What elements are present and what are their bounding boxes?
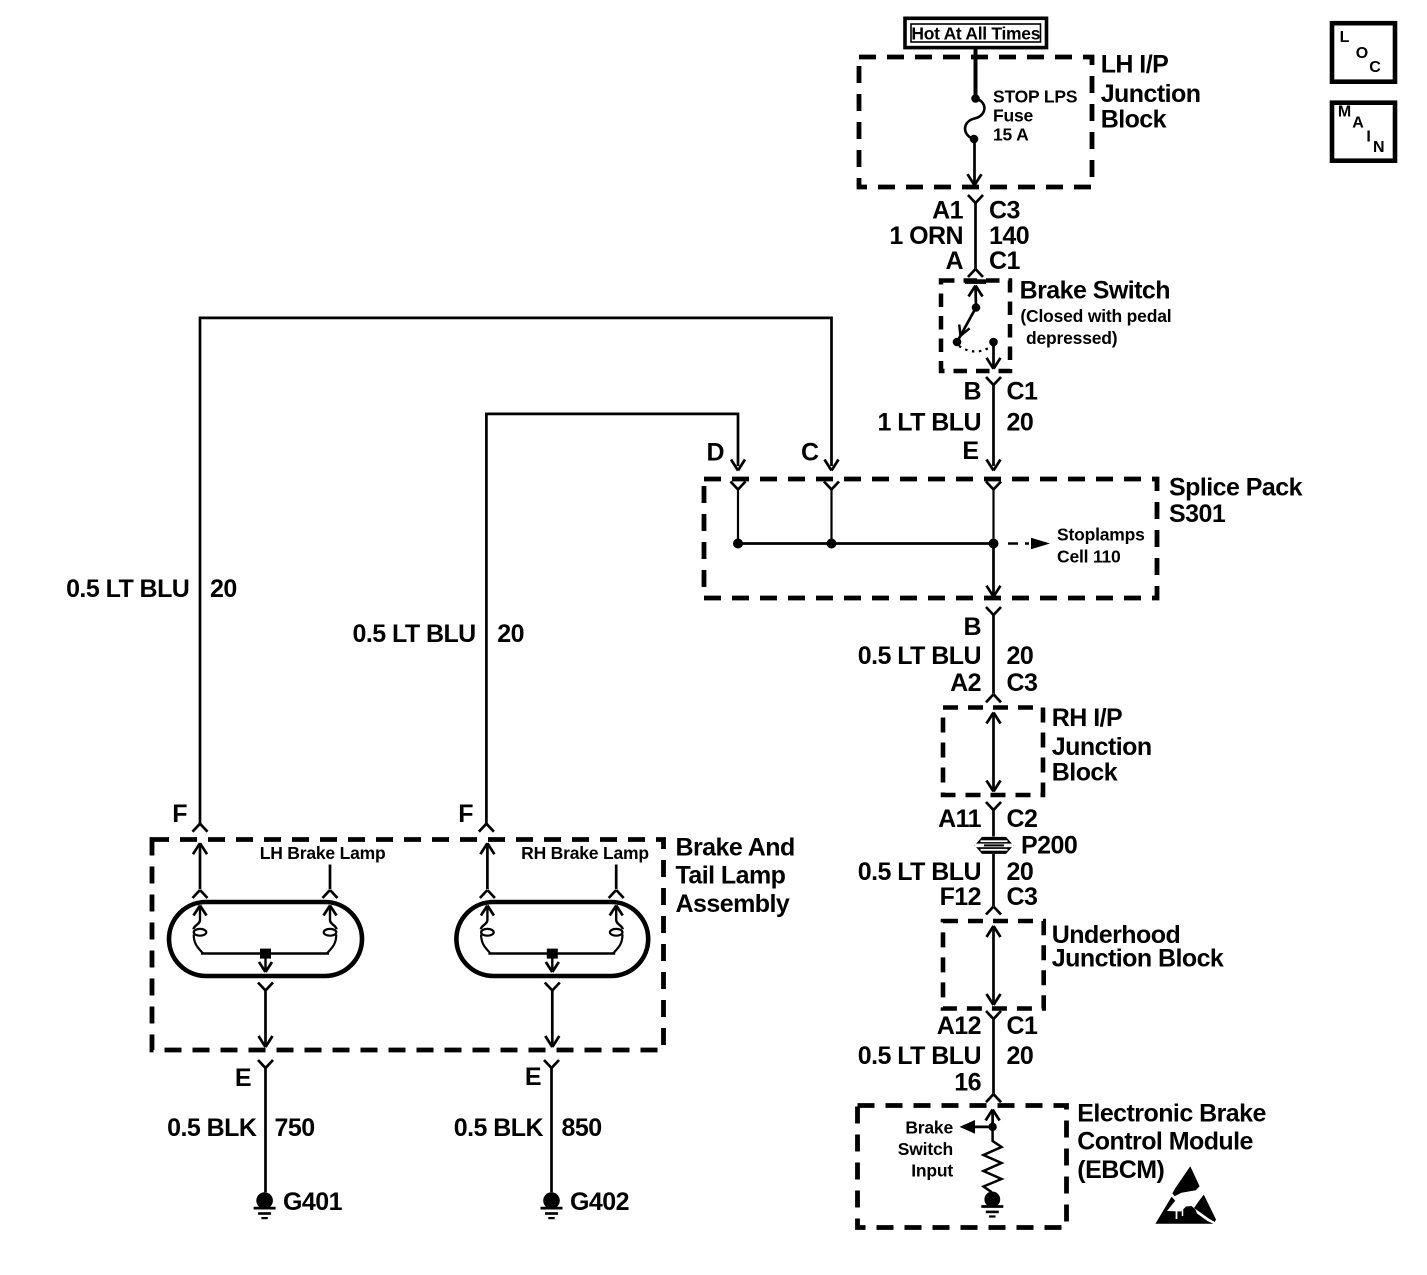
wire feed from Hot At All Times into junction block xyxy=(974,48,978,97)
svg-text:P200: P200 xyxy=(1021,831,1077,859)
svg-text:0.5 LT BLU: 0.5 LT BLU xyxy=(858,642,981,670)
brake switch output wire xyxy=(987,342,1001,369)
splice pack S301 (dashed box) xyxy=(704,479,1157,598)
svg-text:C: C xyxy=(1369,59,1381,76)
svg-text:M: M xyxy=(1338,104,1351,121)
pin label E (RH) xyxy=(525,1063,541,1091)
wire 0.5 LT BLU 20 to RH brake lamp (net F-D) xyxy=(486,414,745,824)
svg-text:0.5 LT BLU: 0.5 LT BLU xyxy=(858,1042,981,1070)
svg-text:Block: Block xyxy=(1101,106,1167,134)
component Brake And Tail Lamp Assembly (dashed box) xyxy=(152,840,664,1051)
svg-text:E: E xyxy=(235,1064,251,1092)
svg-text:I: I xyxy=(1366,128,1370,145)
svg-text:C3: C3 xyxy=(1007,883,1038,911)
svg-text:20: 20 xyxy=(1007,858,1034,886)
connector C3 pin A1 (junction block output) xyxy=(968,195,983,269)
svg-text:C1: C1 xyxy=(989,247,1021,275)
wire through underhood junction block xyxy=(987,926,1001,1005)
connector pin F into lamp assembly (RH) xyxy=(479,824,494,832)
svg-text:A2: A2 xyxy=(950,669,981,697)
svg-text:20: 20 xyxy=(497,620,524,648)
pin label A11 / C2 xyxy=(938,805,1037,833)
svg-text:N: N xyxy=(1373,139,1385,156)
label Brake Switch Input xyxy=(898,1117,954,1180)
pin label F (LH) xyxy=(172,800,187,828)
svg-text:0.5 BLK: 0.5 BLK xyxy=(167,1114,257,1142)
svg-text:O: O xyxy=(1356,45,1368,62)
svg-text:Junction Block: Junction Block xyxy=(1052,944,1224,972)
svg-text:20: 20 xyxy=(1007,1042,1034,1070)
wire P200 to underhood junction block xyxy=(992,854,995,906)
svg-text:Electronic Brake: Electronic Brake xyxy=(1077,1100,1266,1128)
pin label F12 / C3 xyxy=(940,883,1038,911)
svg-text:F12: F12 xyxy=(940,883,981,911)
pin label A1 / C3 xyxy=(932,197,1020,225)
reference arrow to Stoplamps Cell 110 xyxy=(1008,538,1050,550)
splice bus wire xyxy=(738,542,994,545)
svg-text:Tail Lamp: Tail Lamp xyxy=(676,862,786,890)
connector pin F into lamp assembly (LH) xyxy=(193,824,208,832)
label Underhood Junction Block xyxy=(1052,921,1224,972)
pin label B xyxy=(963,613,981,641)
wire 0.5 BLK 750 xyxy=(167,1114,314,1142)
fuse STOP LPS 15 A xyxy=(965,94,984,143)
wire fuse output to box edge xyxy=(968,139,982,185)
svg-text:140: 140 xyxy=(989,222,1029,250)
brake switch travel arc (dotted) xyxy=(959,346,992,352)
brake switch output contact xyxy=(989,338,998,347)
svg-text:C: C xyxy=(801,438,819,466)
label Brake And Tail Lamp Assembly xyxy=(676,834,795,918)
label Stoplamps Cell 110 xyxy=(1057,525,1145,567)
wire label 0.5 LT BLU 20 (P200 segment) xyxy=(858,858,1033,886)
label P200 xyxy=(1021,831,1077,859)
splice entry E xyxy=(986,482,1001,544)
module Electronic Brake Control Module EBCM (dashed box) xyxy=(858,1106,1067,1228)
splice junction C xyxy=(827,539,837,549)
svg-text:STOP LPS: STOP LPS xyxy=(993,87,1077,107)
lamp LH Brake Lamp (dual filament bulb) xyxy=(169,843,362,1047)
label Electronic Brake Control Module (EBCM) xyxy=(1077,1100,1266,1184)
svg-text:0.5 LT BLU: 0.5 LT BLU xyxy=(858,858,981,886)
svg-text:Brake And: Brake And xyxy=(676,834,795,862)
svg-text:F: F xyxy=(458,800,473,828)
brake switch input arrow xyxy=(969,286,983,308)
svg-text:RH I/P: RH I/P xyxy=(1052,704,1122,732)
svg-text:Junction: Junction xyxy=(1052,733,1152,761)
wire through RH I/P junction block xyxy=(987,713,1001,792)
pin label A2 / C3 xyxy=(950,669,1037,697)
svg-text:F: F xyxy=(172,800,187,828)
wire 0.5 LT BLU 20 to LH brake lamp (net F-C) xyxy=(200,318,839,824)
svg-text:L: L xyxy=(1340,29,1350,46)
label Splice Pack S301 xyxy=(1169,474,1303,529)
svg-text:Brake Switch: Brake Switch xyxy=(1020,277,1170,305)
svg-text:B: B xyxy=(963,378,981,406)
label G402 xyxy=(570,1188,629,1216)
svg-text:15 A: 15 A xyxy=(993,125,1029,145)
svg-text:Block: Block xyxy=(1052,759,1118,787)
label Brake Switch xyxy=(1020,277,1172,348)
svg-text:0.5 LT BLU: 0.5 LT BLU xyxy=(352,620,475,648)
svg-text:Input: Input xyxy=(911,1161,953,1181)
splice output wire B xyxy=(987,544,1001,597)
svg-text:RH Brake Lamp: RH Brake Lamp xyxy=(521,843,649,863)
svg-text:Fuse: Fuse xyxy=(993,106,1034,126)
svg-text:20: 20 xyxy=(1007,408,1034,436)
brake switch blade xyxy=(957,308,976,343)
label RH Brake Lamp xyxy=(521,843,649,863)
svg-text:Stoplamps: Stoplamps xyxy=(1057,525,1145,545)
wire 0.5 LT BLU 20 (splice to RH I/P) xyxy=(858,642,1033,670)
legend box MAIN xyxy=(1332,103,1395,161)
svg-text:A11: A11 xyxy=(938,805,981,833)
svg-text:A1: A1 xyxy=(932,197,964,225)
wire 1 LT BLU 20 xyxy=(878,408,1034,436)
connector C1 pin A into brake switch xyxy=(968,269,983,277)
label RH I/P Junction Block xyxy=(1052,704,1152,787)
power label box "Hot At All Times" xyxy=(905,18,1047,47)
component LH I/P Junction Block (dashed box) xyxy=(859,57,1092,187)
brake switch fixed contact bar xyxy=(965,279,986,284)
node label C xyxy=(801,438,819,466)
splice junction E xyxy=(989,539,999,549)
pin label F (RH) xyxy=(458,800,473,828)
svg-text:1 LT BLU: 1 LT BLU xyxy=(878,408,981,436)
svg-text:850: 850 xyxy=(562,1114,602,1142)
svg-text:Splice Pack: Splice Pack xyxy=(1169,474,1303,502)
svg-text:Brake: Brake xyxy=(905,1117,953,1137)
svg-text:Control Module: Control Module xyxy=(1077,1128,1253,1156)
pin label A12 / C1 xyxy=(937,1012,1038,1040)
label G401 xyxy=(283,1188,343,1216)
svg-text:A: A xyxy=(945,247,963,275)
ground G402 xyxy=(541,1192,563,1218)
node brake switch input junction xyxy=(988,1123,996,1131)
pin label A / C1 xyxy=(945,247,1020,275)
wire label 0.5 LT BLU 20 (middle) xyxy=(352,620,524,648)
label LH I/P Junction Block xyxy=(1101,50,1201,133)
svg-text:S301: S301 xyxy=(1169,500,1226,528)
svg-text:20: 20 xyxy=(210,575,237,603)
svg-text:16: 16 xyxy=(954,1069,981,1097)
EBCM input wire pin 16 xyxy=(986,1110,1000,1127)
connector pin 16 into EBCM xyxy=(986,1094,1001,1102)
svg-text:G401: G401 xyxy=(283,1188,343,1216)
svg-text:E: E xyxy=(525,1063,541,1091)
legend box LOC xyxy=(1332,23,1395,81)
svg-text:Junction: Junction xyxy=(1101,80,1201,108)
brake switch stationary contact (lower left) xyxy=(953,338,962,347)
pin label E (LH) xyxy=(235,1064,251,1092)
splice junction D xyxy=(733,539,743,549)
connector pin B (splice output) xyxy=(986,607,1001,694)
svg-text:Hot At All Times: Hot At All Times xyxy=(911,23,1040,43)
svg-text:D: D xyxy=(706,438,724,466)
pass-through grommet P200 xyxy=(975,837,1014,854)
svg-text:depressed): depressed) xyxy=(1026,328,1117,348)
connector pin E (LH lamp return) xyxy=(258,1060,273,1192)
svg-text:C3: C3 xyxy=(989,197,1020,225)
pin label B / C1 xyxy=(963,378,1038,406)
brake switch pivot contact xyxy=(972,303,981,312)
pin label E xyxy=(962,437,978,465)
svg-text:750: 750 xyxy=(275,1114,315,1142)
component Underhood Junction Block (dashed box) xyxy=(943,921,1044,1009)
svg-text:(EBCM): (EBCM) xyxy=(1077,1156,1164,1184)
svg-text:C1: C1 xyxy=(1007,378,1039,406)
svg-text:A12: A12 xyxy=(937,1012,981,1040)
wire 1 ORN 140 xyxy=(889,222,1029,250)
connector pin E (RH lamp return) xyxy=(544,1060,559,1192)
svg-text:Cell 110: Cell 110 xyxy=(1057,547,1121,567)
splice entry D xyxy=(731,482,746,544)
svg-text:0.5 BLK: 0.5 BLK xyxy=(454,1114,544,1142)
svg-text:B: B xyxy=(963,613,981,641)
value label fuse STOP LPS 15 A xyxy=(993,87,1077,145)
svg-text:Switch: Switch xyxy=(898,1139,953,1159)
component RH I/P Junction Block (dashed box) xyxy=(943,708,1043,796)
resistor R (EBCM pulldown) xyxy=(984,1127,1002,1192)
ground (EBCM internal) xyxy=(981,1192,1003,1217)
svg-text:0.5 LT BLU: 0.5 LT BLU xyxy=(66,575,189,603)
pin label 16 xyxy=(954,1069,981,1097)
wire label 0.5 LT BLU 20 (left) xyxy=(66,575,237,603)
svg-text:(Closed with pedal: (Closed with pedal xyxy=(1020,306,1171,326)
svg-text:LH Brake Lamp: LH Brake Lamp xyxy=(260,843,386,863)
svg-text:Assembly: Assembly xyxy=(676,890,790,918)
svg-text:E: E xyxy=(962,437,978,465)
ground G401 xyxy=(254,1192,276,1218)
connector C3 pin A2 into RH I/P junction block xyxy=(986,694,1001,702)
svg-text:1 ORN: 1 ORN xyxy=(889,222,963,250)
connector C2 pin A11 (RH I/P output) xyxy=(986,802,1001,837)
label LH Brake Lamp xyxy=(260,843,386,863)
svg-text:C2: C2 xyxy=(1007,805,1038,833)
splice entry C xyxy=(824,482,839,544)
svg-text:C3: C3 xyxy=(1007,669,1038,697)
node label D xyxy=(706,438,724,466)
svg-text:20: 20 xyxy=(1007,642,1034,670)
ESD sensitive device symbol xyxy=(1155,1166,1216,1223)
switch Brake Switch (dashed box) xyxy=(941,281,1010,372)
connector C3 pin F12 into underhood junction block xyxy=(986,907,1001,915)
wire 0.5 LT BLU 20 (to EBCM) xyxy=(858,1042,1033,1070)
connector C1 pin A12 (underhood output) xyxy=(986,1011,1001,1094)
svg-text:LH I/P: LH I/P xyxy=(1101,50,1169,78)
wire 0.5 BLK 850 xyxy=(454,1114,602,1142)
arrow wire E into splice pack xyxy=(987,460,1001,471)
lamp RH Brake Lamp (dual filament bulb) xyxy=(456,843,648,1047)
svg-text:A: A xyxy=(1352,114,1364,131)
svg-text:G402: G402 xyxy=(570,1188,629,1216)
svg-text:C1: C1 xyxy=(1007,1012,1039,1040)
internal signal arrow Brake Switch Input xyxy=(960,1120,993,1134)
connector C1 pin B (brake switch output) xyxy=(986,377,1001,466)
